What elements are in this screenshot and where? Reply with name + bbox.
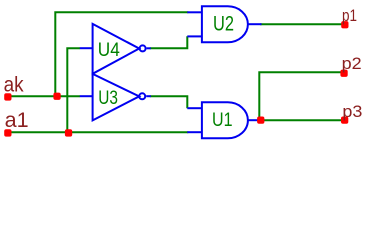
- svg-text:U2: U2: [213, 13, 234, 36]
- svg-text:ak: ak: [4, 73, 24, 97]
- svg-text:p2: p2: [342, 54, 362, 73]
- svg-text:U4: U4: [98, 40, 120, 61]
- svg-text:U1: U1: [212, 110, 233, 131]
- svg-text:p1: p1: [342, 6, 357, 25]
- svg-text:p3: p3: [342, 102, 362, 121]
- svg-text:a1: a1: [5, 108, 29, 132]
- svg-text:U3: U3: [98, 88, 118, 109]
